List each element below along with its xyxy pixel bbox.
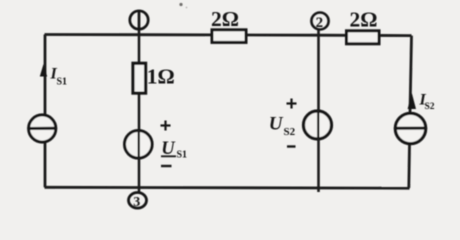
current source IS2 [395, 113, 427, 143]
wire: right branch (IS2) [409, 36, 412, 188]
current arrow IS2 [408, 93, 416, 109]
polarity - of US2 [287, 145, 296, 147]
resistor 1Ω (middle branch) [133, 63, 146, 93]
label 1Ω [147, 65, 175, 89]
voltage source US1 [125, 130, 153, 159]
label US1 [161, 139, 187, 161]
label 2Ω (second resistor) [350, 8, 378, 32]
polarity - of US1 [161, 165, 172, 167]
label IS1 [50, 66, 68, 88]
wire: left branch (IS1) [44, 35, 47, 188]
svg-text:S2: S2 [425, 102, 435, 112]
svg-text:3: 3 [133, 195, 140, 210]
svg-text:2Ω: 2Ω [211, 7, 239, 31]
label IS2 [419, 92, 435, 113]
current source IS1 [28, 115, 57, 142]
svg-text:S1: S1 [177, 150, 188, 161]
current arrow IS1 [40, 64, 47, 77]
svg-text:2: 2 [316, 15, 324, 31]
svg-text:U: U [269, 114, 284, 135]
wire: top bus (left corner to right corner) [45, 35, 412, 36]
polarity + of US2 [287, 99, 297, 109]
node 3 [129, 193, 147, 210]
svg-text:S1: S1 [57, 77, 68, 88]
node 1 [130, 11, 148, 29]
wire: middle branch (node 1 down to node 3) [138, 29, 141, 193]
wire: US2 branch (node 2 down to bottom bus) [317, 30, 320, 192]
voltage source US2 [304, 110, 332, 140]
node 2 [311, 13, 328, 31]
resistor 2Ω (right of node 2) [347, 31, 380, 44]
wire: bottom bus [45, 186, 410, 190]
label US2 [269, 114, 296, 139]
svg-text:S2: S2 [284, 126, 296, 138]
resistor 2Ω (between node 1 and node 2) [212, 30, 246, 43]
polarity + of US1 [161, 121, 171, 131]
svg-text:1Ω: 1Ω [147, 65, 175, 89]
label 2Ω (first resistor) [211, 7, 239, 31]
svg-text:2Ω: 2Ω [350, 8, 378, 32]
